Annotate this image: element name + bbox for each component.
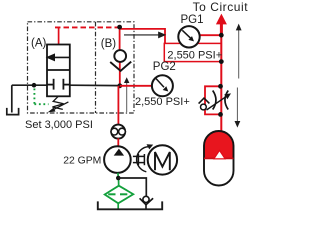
flow meter: [111, 125, 125, 139]
node: label box corner: [219, 59, 224, 64]
pilot drain (green dotted): [34, 89, 48, 105]
To Circuit arrow (red): [216, 14, 227, 34]
valve A blocked ports (bottom cell): [47, 79, 70, 90]
wire red down to flow meter: [117, 86, 119, 126]
gauge PG1: [178, 26, 199, 47]
enclosure boundary (dash-dot box): [28, 22, 135, 113]
check valve (tank return): [140, 196, 154, 209]
node: PG1 tap: [200, 34, 221, 36]
svg-text:Set 3,000 PSI: Set 3,000 PSI: [25, 119, 93, 131]
wire red to PG2: [120, 85, 152, 87]
valve A arrow (top cell): [48, 55, 70, 61]
svg-text:PG1: PG1: [181, 14, 204, 26]
svg-text:22 GPM: 22 GPM: [63, 156, 101, 167]
wire red main vertical: [220, 23, 222, 132]
flow arrow (to PG1 run): [124, 32, 165, 37]
valve A adjust arrow: [48, 102, 69, 113]
wire red main top run: [120, 29, 166, 44]
flow arrow up (beside check valve B): [124, 77, 129, 112]
coupling: [133, 154, 145, 165]
valve A spring: [52, 97, 63, 110]
label box 2,550 PSI+ (red): [164, 43, 221, 61]
gauge PG2: [152, 75, 173, 96]
node below pump: [116, 176, 121, 181]
restrictor adjust arrow: [207, 93, 232, 110]
accumulator: [204, 131, 234, 186]
svg-text:(A): (A): [31, 38, 47, 50]
wire drain to tank (left): [11, 85, 13, 112]
check valve B: [110, 27, 131, 86]
motor: [148, 145, 177, 174]
pilot line (red dashed) to valve A: [55, 26, 120, 28]
svg-text:(B): (B): [101, 38, 117, 50]
wire return to tank check: [118, 178, 146, 197]
svg-text:2,550 PSI+: 2,550 PSI+: [135, 96, 190, 108]
pump: [104, 146, 131, 173]
filter (green diamond): [105, 186, 134, 209]
unloading valve A body: [47, 45, 70, 97]
restrictor arcs: [213, 91, 229, 110]
flow control with bypass check: [199, 84, 223, 117]
rotation arrow: [137, 144, 154, 172]
tank (left drain): [7, 108, 19, 115]
flow arrow down (discharge): [235, 88, 241, 128]
flow arrow up (charge): [236, 24, 242, 79]
tank (main): [98, 201, 162, 209]
node: junction at B outlet: [117, 83, 122, 88]
wire main horizontal (valve line): [12, 84, 47, 86]
suction line (green): [117, 173, 119, 178]
node: pilot tap: [32, 83, 37, 88]
svg-text:PG2: PG2: [153, 61, 176, 73]
wire red to pump: [117, 138, 119, 147]
wire red drop to valve A top: [58, 27, 60, 44]
node junction top: [117, 25, 122, 30]
svg-text:To Circuit: To Circuit: [193, 0, 249, 14]
